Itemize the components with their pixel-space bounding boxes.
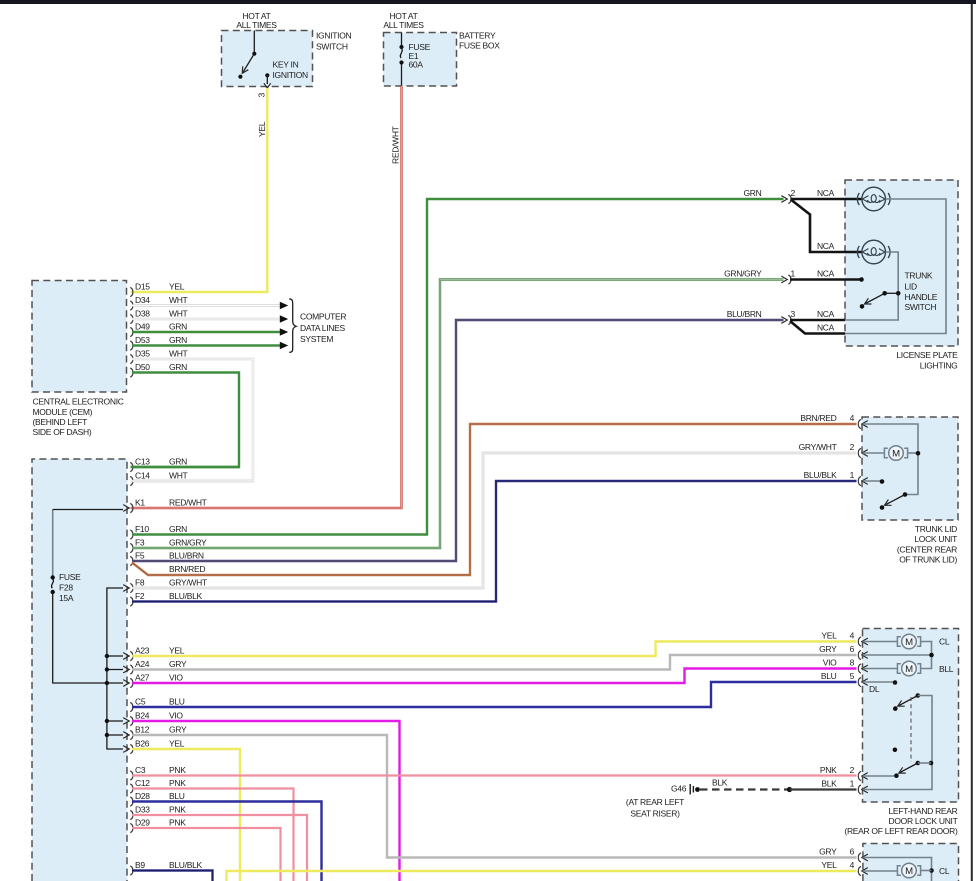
- internal wire pin5 to DL contact: [863, 681, 894, 683]
- wire BLK splice to door lock pin 1: [790, 788, 857, 790]
- connector pin B24: [130, 716, 133, 725]
- connector pin B9: [130, 866, 133, 875]
- svg-text:BLU: BLU: [821, 671, 837, 681]
- svg-text:BRN/RED: BRN/RED: [800, 413, 836, 423]
- wire GRN F10 to license pin 2: [132, 199, 784, 535]
- svg-text:BLU: BLU: [169, 696, 185, 706]
- svg-text:C14: C14: [135, 470, 150, 480]
- svg-text:6: 6: [850, 644, 855, 654]
- svg-text:VIO: VIO: [823, 658, 837, 668]
- data line arrow at y=332: [280, 328, 288, 336]
- internal wire fuse F28 output to bus: [53, 594, 106, 683]
- top border bar: [0, 0, 976, 4]
- bus stub y=683: [107, 682, 123, 684]
- svg-text:FUSE: FUSE: [59, 572, 81, 582]
- svg-text:D15: D15: [135, 281, 150, 291]
- internal wire pin4 to motor CL: [863, 641, 898, 643]
- svg-text:D34: D34: [135, 295, 150, 305]
- central electronic module box (lower connector): [32, 459, 127, 881]
- svg-text:BLL: BLL: [939, 664, 954, 674]
- svg-text:GRY/WHT: GRY/WHT: [169, 577, 207, 587]
- svg-text:D53: D53: [135, 335, 150, 345]
- svg-text:HANDLE: HANDLE: [905, 292, 938, 302]
- internal wire pin1 to contact: [863, 480, 881, 482]
- wire NCA pin3 branch lamp return: [790, 321, 845, 334]
- connector pin F3: [130, 543, 133, 552]
- svg-text:CL: CL: [939, 637, 950, 647]
- svg-text:GRN/GRY: GRN/GRY: [169, 537, 207, 547]
- svg-text:BLU/BLK: BLU/BLK: [804, 470, 837, 480]
- svg-text:M: M: [905, 637, 913, 648]
- svg-text:NCA: NCA: [817, 269, 835, 279]
- svg-text:BLK: BLK: [712, 778, 728, 788]
- connector pin 5 (door lock unit): [858, 677, 861, 686]
- svg-text:GRN: GRN: [744, 188, 762, 198]
- internal wire lamp2 to switch vertical: [845, 252, 898, 320]
- svg-text:F8: F8: [135, 577, 145, 587]
- connector pin C5: [130, 702, 133, 711]
- svg-text:VIO: VIO: [169, 672, 183, 682]
- svg-text:WHT: WHT: [169, 295, 188, 305]
- connector pin A24: [130, 665, 133, 674]
- svg-text:WHT: WHT: [169, 470, 188, 480]
- svg-text:PNK: PNK: [169, 765, 186, 775]
- wire GRN D53 to data-line arrow: [132, 344, 280, 346]
- svg-text:C12: C12: [135, 778, 150, 788]
- svg-text:ALL TIMES: ALL TIMES: [236, 20, 277, 30]
- connector pin 3 (license plate lighting): [781, 317, 787, 324]
- connector pin 8 (door lock unit): [858, 664, 861, 673]
- connector pin F2: [130, 597, 133, 606]
- svg-text:D28: D28: [135, 791, 150, 801]
- svg-text:BLU/BRN: BLU/BRN: [727, 309, 762, 319]
- connector pin D28: [130, 797, 133, 806]
- svg-text:TRUNK LID: TRUNK LID: [915, 524, 957, 534]
- svg-text:B9: B9: [135, 860, 145, 870]
- svg-text:GRY: GRY: [169, 724, 187, 734]
- svg-text:FUSE BOX: FUSE BOX: [459, 41, 500, 51]
- svg-text:GRN: GRN: [169, 362, 187, 372]
- right border line: [971, 4, 973, 881]
- motor door lock CL: [897, 634, 920, 649]
- svg-text:DATA LINES: DATA LINES: [300, 323, 345, 333]
- svg-text:F5: F5: [135, 550, 145, 560]
- svg-text:M: M: [905, 866, 913, 877]
- connector pin C14: [130, 476, 133, 485]
- svg-text:G46: G46: [671, 784, 687, 794]
- door lock switch 2: [893, 748, 898, 753]
- svg-text:CL: CL: [939, 866, 950, 876]
- wire GRN/GRY F3 to license pin 1: [132, 280, 784, 549]
- svg-text:A23: A23: [135, 645, 150, 655]
- wire RED/WHT battery fuse to CEM K1: [131, 86, 402, 508]
- connector pin F5: [130, 556, 133, 565]
- svg-text:F10: F10: [135, 524, 149, 534]
- svg-text:D35: D35: [135, 348, 150, 358]
- svg-text:ALL TIMES: ALL TIMES: [383, 20, 424, 30]
- svg-text:1: 1: [791, 268, 796, 278]
- motor trunk lid lock M1: [884, 446, 907, 461]
- connector pin F8: [130, 583, 133, 592]
- bus stub y=721: [107, 720, 123, 722]
- svg-text:KEY IN: KEY IN: [273, 60, 299, 70]
- svg-text:MODULE (CEM): MODULE (CEM): [33, 407, 93, 417]
- fuse F28 15A: [52, 510, 54, 576]
- svg-text:1: 1: [850, 778, 855, 788]
- svg-text:(AT REAR LEFT: (AT REAR LEFT: [626, 797, 684, 807]
- svg-text:M: M: [892, 448, 900, 459]
- svg-text:VIO: VIO: [169, 710, 183, 720]
- svg-text:B26: B26: [135, 738, 150, 748]
- internal wire motor CL loop: [921, 642, 932, 669]
- connector pin D50: [130, 368, 133, 377]
- wire BLU D28 down off page: [132, 802, 322, 881]
- internal wire switch1 to pin1 vertical: [863, 696, 933, 790]
- connector pin D53: [130, 341, 133, 350]
- trunk lid lock unit box: [862, 417, 958, 520]
- wire BRN/RED to trunk lock pin 4: [132, 424, 857, 575]
- svg-text:4: 4: [850, 630, 855, 640]
- svg-text:BLK: BLK: [821, 779, 837, 789]
- svg-text:F3: F3: [135, 537, 145, 547]
- motor door lock BLL: [897, 661, 920, 676]
- svg-text:GRY: GRY: [819, 847, 837, 857]
- ignition switch box: [222, 31, 313, 87]
- wire PNK C3 to door lock pin 2: [132, 774, 857, 776]
- wire BLU C5 to door lock pin 5: [132, 682, 857, 707]
- svg-text:BLU: BLU: [169, 791, 185, 801]
- svg-text:D38: D38: [135, 308, 150, 318]
- internal wire pin4 to lock switch: [863, 424, 919, 495]
- svg-text:B24: B24: [135, 710, 150, 720]
- svg-text:WHT: WHT: [169, 348, 188, 358]
- wire NCA pin3 to switch return: [790, 319, 845, 322]
- svg-text:GRN: GRN: [169, 321, 187, 331]
- connector pin D33: [130, 810, 133, 819]
- svg-text:LEFT-HAND REAR: LEFT-HAND REAR: [888, 806, 957, 816]
- connector pin D35: [130, 354, 133, 363]
- wire GRY B12 to lower box pin 6: [132, 735, 857, 858]
- data line arrow at y=319: [280, 315, 288, 323]
- key-in-ignition contact: [265, 73, 269, 77]
- wire YEL ignition pin3 to CEM D15: [131, 88, 268, 292]
- wire VIO A27 to door lock pin 8: [132, 669, 857, 684]
- svg-text:CENTRAL ELECTRONIC: CENTRAL ELECTRONIC: [33, 397, 124, 407]
- wire PNK D29 down off page: [132, 828, 281, 881]
- wire BLK G46 (dashed splice): [700, 788, 789, 790]
- wire WHT D34 to data-line arrow: [132, 304, 280, 306]
- svg-text:SWITCH: SWITCH: [316, 42, 348, 52]
- internal wire pin2 to contact: [863, 775, 895, 777]
- door lock switch 1: [916, 693, 921, 698]
- internal wire lamp1 return: [845, 199, 946, 334]
- connector pin 1 (trunk lid lock unit): [858, 476, 861, 485]
- svg-text:LID: LID: [905, 282, 917, 292]
- data line arrow at y=305.5: [280, 302, 288, 310]
- bus stub y=735: [107, 734, 123, 736]
- connector pin D34: [130, 301, 133, 310]
- wire GRN D50 to C13: [131, 373, 240, 468]
- svg-text:WHT: WHT: [169, 308, 188, 318]
- svg-text:SIDE OF DASH): SIDE OF DASH): [33, 427, 92, 437]
- wire NCA pin1 to switch contact: [790, 278, 860, 281]
- svg-text:RED/WHT: RED/WHT: [391, 126, 401, 164]
- connector pin D49: [130, 327, 133, 336]
- svg-text:D49: D49: [135, 321, 150, 331]
- svg-text:A24: A24: [135, 659, 150, 669]
- svg-text:A27: A27: [135, 672, 150, 682]
- data line arrow at y=345.5: [280, 342, 288, 350]
- connector pin B26: [130, 744, 133, 753]
- svg-text:LOCK UNIT: LOCK UNIT: [914, 534, 957, 544]
- svg-text:YEL: YEL: [169, 738, 185, 748]
- svg-text:B12: B12: [135, 724, 150, 734]
- wire YEL A23 to door lock pin 4: [132, 642, 857, 657]
- svg-text:BRN/RED: BRN/RED: [169, 564, 205, 574]
- connector pin D15: [130, 287, 133, 296]
- license plate lighting box: [845, 180, 958, 346]
- connector pin 6 (lower door lock unit): [858, 853, 861, 862]
- connector pin A23: [130, 651, 133, 660]
- internal wire motor right (lower box): [921, 870, 932, 872]
- svg-text:DOOR LOCK UNIT: DOOR LOCK UNIT: [888, 816, 957, 826]
- connector pin A27: [130, 678, 133, 687]
- svg-text:NCA: NCA: [817, 309, 835, 319]
- svg-text:15A: 15A: [59, 593, 74, 603]
- svg-text:NCA: NCA: [817, 188, 835, 198]
- svg-text:SYSTEM: SYSTEM: [300, 334, 333, 344]
- svg-text:SWITCH: SWITCH: [905, 302, 937, 312]
- connector pin 2 (license plate lighting): [781, 196, 787, 203]
- central electronic module box (upper connector): [32, 281, 127, 393]
- svg-text:PNK: PNK: [169, 804, 186, 814]
- connector pin 4 (door lock unit): [858, 637, 861, 646]
- wire BLU/BRN F5 to license pin 3: [132, 320, 784, 561]
- wire YEL from off page to lower box pin 4: [227, 871, 857, 881]
- svg-text:M: M: [905, 664, 913, 675]
- fuse E1 60A: [401, 33, 403, 46]
- svg-text:5: 5: [850, 671, 855, 681]
- internal wire pin4 to motor (lower box): [863, 870, 898, 872]
- bus stub y=656: [107, 655, 123, 657]
- wire PNK C12 down off page: [132, 789, 294, 881]
- wire NCA pin2 to lamp 1: [791, 198, 862, 201]
- svg-text:NCA: NCA: [817, 241, 835, 251]
- svg-text:8: 8: [850, 657, 855, 667]
- internal wire motor to vertical: [908, 452, 918, 454]
- svg-text:(BEHIND LEFT: (BEHIND LEFT: [33, 417, 88, 427]
- svg-text:K1: K1: [135, 497, 145, 507]
- svg-text:C13: C13: [135, 456, 150, 466]
- internal wire pin8 to motor BLL: [863, 668, 898, 670]
- motor lower door lock CL: [897, 863, 920, 878]
- svg-text:C3: C3: [135, 765, 146, 775]
- svg-text:IGNITION: IGNITION: [273, 70, 309, 80]
- wire NCA pin2 branch to lamp 2: [791, 200, 862, 253]
- internal wire fuse F28 feed to K1: [53, 509, 123, 511]
- svg-text:GRY: GRY: [169, 659, 187, 669]
- svg-text:LICENSE PLATE: LICENSE PLATE: [896, 350, 958, 360]
- svg-text:YEL: YEL: [821, 860, 837, 870]
- connector pin C12: [130, 784, 133, 793]
- svg-text:GRN: GRN: [169, 456, 187, 466]
- connector pin 2 (door lock unit): [858, 771, 861, 780]
- connector pin 4 (trunk lid lock unit): [858, 419, 861, 428]
- wire WHT D35 to C14: [131, 359, 254, 481]
- svg-text:GRY/WHT: GRY/WHT: [799, 442, 837, 452]
- svg-text:GRN: GRN: [169, 524, 187, 534]
- internal bus to pins F8..B26: [107, 588, 123, 749]
- svg-text:PNK: PNK: [820, 765, 837, 775]
- wire GRN D49 to data-line arrow: [132, 331, 280, 333]
- trunk lock switch: [880, 479, 885, 484]
- svg-text:6: 6: [850, 846, 855, 856]
- svg-text:F28: F28: [59, 583, 73, 593]
- connector pin 4 (lower door lock unit): [858, 866, 861, 875]
- mechanical link (dashed): [910, 697, 912, 762]
- trunk lid handle switch: [859, 277, 864, 282]
- internal wire switch2 pivot link: [918, 762, 931, 764]
- wire GRY/WHT F8 to trunk lock pin 2: [132, 453, 857, 588]
- svg-text:D50: D50: [135, 362, 150, 372]
- svg-text:GRY: GRY: [819, 644, 837, 654]
- wire GRN C13 (to D50 loop): [132, 466, 239, 468]
- svg-text:4: 4: [850, 860, 855, 870]
- svg-text:PNK: PNK: [169, 778, 186, 788]
- connector pin 1 (door lock unit): [858, 785, 861, 794]
- svg-text:BATTERY: BATTERY: [459, 31, 496, 41]
- svg-text:YEL: YEL: [821, 631, 837, 641]
- wire WHT C14 (to D35 loop): [132, 480, 253, 482]
- wire YEL B26 down off page: [132, 749, 240, 881]
- svg-text:BLU/BRN: BLU/BRN: [169, 550, 204, 560]
- svg-text:D29: D29: [135, 817, 150, 827]
- battery fuse box: [384, 33, 457, 87]
- svg-text:GRN: GRN: [169, 335, 187, 345]
- svg-text:1: 1: [850, 470, 855, 480]
- lamp license plate light 2: [857, 240, 890, 264]
- wire BLU/BLK F2 to trunk lock pin 1: [132, 481, 857, 602]
- svg-text:YEL: YEL: [169, 645, 185, 655]
- connector pin 6 (door lock unit): [858, 650, 861, 659]
- svg-text:2: 2: [850, 442, 855, 452]
- connector pin 1 (license plate lighting): [781, 276, 787, 283]
- svg-text:3: 3: [257, 93, 267, 98]
- right-hand rear door lock unit box (partial): [863, 844, 959, 881]
- svg-text:3: 3: [791, 309, 796, 319]
- wire WHT D38 to data-line arrow: [132, 318, 280, 320]
- wire VIO B24 down off page: [132, 721, 400, 881]
- svg-text:GRN/GRY: GRN/GRY: [724, 269, 762, 279]
- connector pin D38: [130, 314, 133, 323]
- svg-text:D33: D33: [135, 804, 150, 814]
- connector pin B12: [130, 730, 133, 739]
- internal wire pin2 to motor: [863, 452, 885, 454]
- internal wire pin6 to junction: [863, 654, 932, 656]
- svg-text:SEAT RISER): SEAT RISER): [630, 809, 680, 819]
- wire GRY A24 to door lock pin 6: [132, 655, 857, 670]
- ignition switch S1 internals: [253, 31, 255, 54]
- svg-text:F2: F2: [135, 591, 145, 601]
- svg-text:(CENTER REAR: (CENTER REAR: [897, 544, 957, 554]
- brace computer data lines: [289, 299, 296, 353]
- connector pin 2 (trunk lid lock unit): [858, 448, 861, 457]
- svg-text:COMPUTER: COMPUTER: [300, 312, 346, 322]
- connector pin K1: [130, 503, 133, 512]
- svg-text:OF TRUNK LID): OF TRUNK LID): [899, 555, 957, 565]
- svg-text:NCA: NCA: [817, 323, 835, 333]
- svg-text:BLU/BLK: BLU/BLK: [169, 591, 202, 601]
- connector pin D29: [130, 823, 133, 832]
- svg-text:RED/WHT: RED/WHT: [169, 497, 207, 507]
- svg-text:60A: 60A: [409, 60, 424, 70]
- left-hand rear door lock unit box: [863, 629, 959, 803]
- connector pin F10: [130, 530, 133, 539]
- svg-text:YEL: YEL: [169, 281, 185, 291]
- svg-text:BLU/BLK: BLU/BLK: [169, 860, 202, 870]
- svg-text:2: 2: [850, 765, 855, 775]
- svg-text:YEL: YEL: [257, 121, 267, 137]
- connector pin C3: [130, 771, 133, 780]
- bus stub y=669.5: [107, 669, 123, 671]
- svg-text:IGNITION: IGNITION: [316, 31, 352, 41]
- svg-text:C5: C5: [135, 696, 146, 706]
- svg-text:LIGHTING: LIGHTING: [920, 360, 958, 370]
- svg-text:4: 4: [850, 413, 855, 423]
- connector pin C13: [130, 462, 133, 471]
- internal wire pin6 to junction (lower box): [863, 858, 932, 881]
- lamp license plate light 1: [857, 187, 890, 211]
- wire BLU/BLK B9 down off page: [132, 871, 213, 881]
- wire PNK D33 down off page: [132, 815, 307, 881]
- svg-text:2: 2: [791, 188, 796, 198]
- svg-text:DL: DL: [869, 684, 880, 694]
- svg-text:PNK: PNK: [169, 817, 186, 827]
- svg-text:(REAR OF LEFT REAR DOOR): (REAR OF LEFT REAR DOOR): [844, 826, 958, 836]
- svg-text:TRUNK: TRUNK: [905, 271, 933, 281]
